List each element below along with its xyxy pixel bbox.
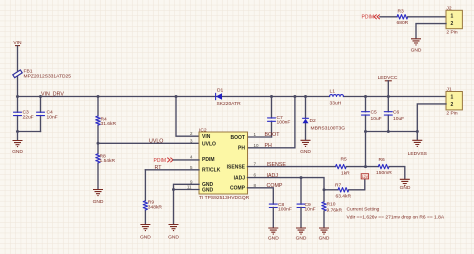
ground LEDVSS	[408, 140, 428, 157]
ground GND under C3	[12, 141, 23, 156]
svg-text:IC2: IC2	[199, 127, 207, 133]
svg-text:J1: J1	[446, 87, 451, 93]
ground GND right of R6	[400, 179, 411, 191]
svg-text:100nF: 100nF	[277, 120, 291, 126]
wire J2 pin2 to GND	[416, 24, 446, 39]
svg-text:2 Pin: 2 Pin	[446, 111, 457, 117]
resistor R4	[96, 97, 117, 144]
svg-text:ISENSE: ISENSE	[267, 162, 287, 168]
wire IADJ pin6	[248, 178, 325, 190]
svg-text:R5: R5	[341, 157, 348, 163]
resistor R5	[336, 157, 351, 177]
ground GND under R8	[93, 190, 104, 206]
capacitor C9	[297, 178, 316, 228]
svg-text:2: 2	[451, 102, 454, 108]
wire COMP pin8	[248, 188, 274, 204]
wire R6 to GND	[389, 167, 405, 179]
capacitor C5	[362, 97, 382, 132]
connector J2	[446, 5, 462, 35]
svg-text:10uF: 10uF	[393, 116, 404, 122]
IC U: TPS92513	[199, 127, 250, 201]
wire C5/C6 bottoms to LEDVSS column	[366, 131, 418, 133]
svg-text:GND: GND	[93, 199, 104, 205]
inductor L1	[330, 89, 344, 107]
svg-text:1: 1	[451, 14, 454, 20]
svg-text:10nF: 10nF	[305, 207, 316, 213]
wire J1 pin2 to LEDVSS	[417, 104, 446, 140]
port 12V	[361, 174, 368, 179]
wire UVLO pin3	[98, 142, 199, 144]
svg-text:D2: D2	[310, 118, 317, 124]
wire R3 to J2	[408, 16, 446, 18]
svg-text:GND: GND	[319, 235, 330, 241]
svg-text:SK220ATR: SK220ATR	[217, 101, 242, 107]
svg-text:348kR: 348kR	[148, 205, 163, 211]
svg-text:BOOT: BOOT	[231, 135, 245, 141]
svg-text:150mR: 150mR	[376, 170, 392, 176]
svg-text:MPZ2012S331ATD25: MPZ2012S331ATD25	[24, 73, 72, 79]
svg-text:PDIM: PDIM	[154, 158, 167, 164]
svg-text:RT: RT	[155, 165, 163, 171]
svg-text:VIN_DRV: VIN_DRV	[41, 92, 64, 98]
svg-text:12V: 12V	[362, 175, 369, 179]
svg-text:GND: GND	[400, 185, 411, 191]
svg-text:MBRS3100T3G: MBRS3100T3G	[311, 125, 346, 131]
svg-text:L1: L1	[330, 89, 336, 95]
svg-text:1.54kR: 1.54kR	[100, 158, 116, 164]
connector J1	[446, 87, 462, 117]
svg-text:100nF: 100nF	[278, 207, 292, 213]
wire PDIM pin4	[173, 159, 199, 161]
svg-text:R7: R7	[335, 182, 342, 188]
note Current Setting	[347, 206, 445, 220]
svg-text:GND: GND	[140, 234, 151, 240]
svg-text:PDIM: PDIM	[202, 157, 215, 163]
ferrite bead FB1	[13, 68, 71, 79]
diode D1	[216, 87, 241, 107]
svg-text:RT/CLK: RT/CLK	[202, 168, 221, 174]
wire VIN branch to pin2	[176, 97, 199, 137]
svg-text:9.76kR: 9.76kR	[327, 208, 343, 214]
ground GND under R10	[319, 228, 330, 241]
svg-text:UVLO: UVLO	[202, 141, 216, 147]
port LEDVCC (power)	[378, 75, 398, 97]
svg-text:Vdir ==1.626v == 271mv drop on: Vdir ==1.626v == 271mv drop on R6 == 1.8…	[347, 214, 445, 220]
ground GND under D2	[300, 140, 311, 155]
svg-text:GND: GND	[168, 234, 179, 240]
svg-text:PDIM: PDIM	[362, 15, 375, 21]
resistor R3	[397, 9, 409, 26]
wire PDIM to R3	[380, 16, 397, 18]
svg-text:BOOT: BOOT	[265, 132, 281, 138]
svg-text:ISENSE: ISENSE	[227, 165, 246, 171]
capacitor C7 / BOOT branch	[268, 97, 291, 138]
ground GND under R9	[140, 225, 151, 241]
svg-text:PH: PH	[265, 143, 273, 149]
svg-text:Current Setting: Current Setting	[347, 206, 380, 212]
ground GND under pins 9/11	[168, 225, 179, 241]
svg-text:J2: J2	[446, 5, 451, 11]
svg-text:VIN: VIN	[202, 134, 211, 140]
svg-text:2 Pin: 2 Pin	[446, 29, 457, 35]
svg-text:GND: GND	[268, 235, 279, 241]
svg-text:1: 1	[451, 94, 454, 100]
svg-text:FB1: FB1	[24, 68, 33, 74]
wire R5 to R6	[346, 166, 378, 168]
svg-text:GND: GND	[411, 47, 422, 53]
svg-text:GND: GND	[300, 149, 311, 155]
diode D2	[303, 97, 346, 140]
wire BOOT pin1	[248, 136, 272, 138]
svg-text:LEDVCC: LEDVCC	[378, 75, 398, 81]
svg-text:GND: GND	[202, 187, 214, 193]
svg-text:IADJ: IADJ	[267, 173, 279, 179]
wire C5 junction down to ISENSE line	[365, 132, 367, 167]
resistor R6	[376, 157, 392, 176]
svg-text:10nF: 10nF	[47, 114, 58, 120]
wire GND pins 9/11	[174, 184, 200, 224]
svg-text:PH: PH	[238, 146, 245, 152]
capacitor C3	[14, 97, 34, 132]
capacitor C8	[269, 202, 292, 228]
resistor R9	[143, 170, 162, 224]
svg-text:1kR: 1kR	[341, 171, 350, 177]
capacitor C4	[37, 97, 58, 132]
svg-text:C6: C6	[393, 110, 400, 116]
svg-text:63.4kR: 63.4kR	[336, 193, 352, 199]
ground GND under C8	[268, 228, 279, 241]
svg-text:10uF: 10uF	[371, 116, 382, 122]
svg-text:UVLO: UVLO	[149, 138, 163, 144]
wire VIN vertical to FB1	[17, 46, 19, 97]
svg-text:31.6kR: 31.6kR	[101, 121, 117, 127]
svg-text:R6: R6	[379, 157, 386, 163]
svg-text:10: 10	[254, 143, 260, 148]
port VIN (power)	[13, 40, 22, 46]
capacitor C6	[384, 97, 404, 132]
svg-text:COMP: COMP	[267, 183, 283, 189]
wire main bus VIN_DRV / PH	[18, 96, 447, 98]
wire C3/C4 bottoms	[18, 132, 41, 141]
svg-text:TI TPS92513HVDGQR: TI TPS92513HVDGQR	[199, 195, 250, 201]
wire RT pin5	[145, 169, 199, 171]
svg-text:LEDVSS: LEDVSS	[408, 151, 428, 157]
svg-text:22uF: 22uF	[23, 114, 34, 120]
svg-text:33uH: 33uH	[330, 100, 342, 106]
ground GND under C9	[296, 228, 307, 241]
wire PH pin10	[248, 97, 295, 148]
port PDIM (left)	[154, 158, 174, 164]
svg-text:R10: R10	[327, 201, 336, 207]
ground GND under J2	[411, 39, 422, 54]
svg-text:R3: R3	[398, 9, 405, 15]
svg-text:680R: 680R	[397, 20, 409, 26]
svg-text:GND: GND	[296, 235, 307, 241]
resistor R7	[324, 179, 365, 199]
port PDIM (top)	[362, 15, 380, 21]
svg-text:COMP: COMP	[230, 186, 246, 192]
wire ISENSE pin7 to R5	[248, 166, 336, 168]
svg-text:2: 2	[451, 21, 454, 27]
svg-text:IADJ: IADJ	[234, 176, 246, 182]
svg-text:11: 11	[187, 185, 192, 190]
resistor R10	[322, 190, 343, 228]
svg-text:D1: D1	[217, 87, 224, 93]
resistor R8	[96, 143, 116, 189]
svg-text:GND: GND	[12, 149, 23, 155]
svg-text:C5: C5	[371, 110, 378, 116]
